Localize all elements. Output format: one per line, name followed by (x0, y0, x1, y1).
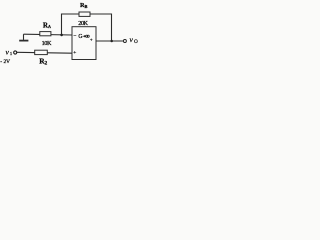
svg-text:+: + (73, 50, 76, 56)
resistor R2 body (35, 50, 48, 54)
svg-text:1: 1 (10, 51, 13, 56)
svg-text:RA: RA (43, 22, 51, 30)
resistor RA body (40, 32, 51, 36)
svg-text:O: O (134, 40, 138, 45)
wire inverting row (24, 33, 73, 36)
svg-text:20K: 20K (78, 20, 88, 27)
terminal input (14, 51, 17, 54)
wire input row (17, 51, 72, 54)
ground (23, 34, 25, 40)
svg-text:2V: 2V (4, 59, 10, 65)
node junction at inverting input (60, 34, 63, 37)
resistor RB body (79, 12, 90, 16)
svg-text:RB: RB (80, 2, 87, 9)
wire output (96, 40, 123, 42)
svg-text:-: - (0, 59, 2, 65)
svg-text:+: + (90, 39, 93, 44)
svg-text:R2: R2 (39, 56, 47, 66)
svg-text:10K: 10K (42, 40, 52, 47)
svg-text:v: v (130, 35, 134, 44)
terminal output (123, 40, 126, 43)
node junction at output (110, 40, 113, 43)
svg-text:−: − (73, 34, 76, 40)
svg-text:G: G (78, 34, 82, 40)
svg-text:v: v (6, 47, 10, 56)
op-amp U1 box (72, 27, 96, 60)
wire feedback loop (62, 14, 112, 41)
